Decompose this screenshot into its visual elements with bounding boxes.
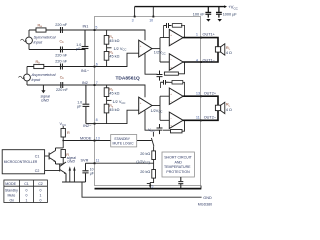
- svg-text:C1: C1: [35, 154, 40, 158]
- pin 10 wire: [152, 7, 154, 17]
- svg-text:OUT2+: OUT2+: [204, 92, 217, 96]
- svg-text:MICROCONTROLLER: MICROCONTROLLER: [4, 160, 38, 164]
- svg-text:MGD380: MGD380: [198, 202, 212, 206]
- svg-text:45 kΩ: 45 kΩ: [109, 54, 119, 58]
- symmetrical input source: [21, 30, 33, 50]
- divider bottom wire: [150, 178, 153, 189]
- resistor Ra: [36, 28, 46, 32]
- svg-text:0: 0: [40, 188, 42, 192]
- internal feedback stub ch2 top: [161, 82, 185, 96]
- svg-text:OUT2−: OUT2−: [204, 115, 217, 119]
- internal caps ch1 below: [157, 71, 163, 81]
- svg-text:GND: GND: [67, 159, 75, 163]
- svg-text:0: 0: [26, 193, 28, 197]
- internal caps ch2 below: [157, 124, 163, 134]
- svg-text:13: 13: [196, 92, 200, 96]
- op-amp ch1 input stage: [139, 40, 152, 57]
- Q1 emitter arrow: [54, 160, 56, 162]
- op-amp OUT1+: [169, 29, 183, 45]
- transistor Q2: [60, 162, 66, 182]
- svg-text:8: 8: [96, 118, 98, 122]
- capacitor below protection: [178, 177, 183, 189]
- signal GND arrow (input): [42, 85, 44, 91]
- svg-text:MUTE LOGIC: MUTE LOGIC: [113, 142, 135, 146]
- svg-text:Mute: Mute: [8, 193, 16, 197]
- op-amp OUT2+: [169, 88, 183, 104]
- wire R to mode junction: [62, 137, 64, 148]
- svg-text:OUT1+: OUT1+: [203, 33, 216, 37]
- ch1 input opamp wires: [95, 30, 161, 67]
- op-amp OUT2-: [169, 112, 183, 128]
- MODE rail: [63, 140, 151, 142]
- svg-text:+VCC: +VCC: [228, 5, 238, 11]
- microcontroller box: [2, 150, 44, 174]
- wire OUT1-: [183, 52, 218, 62]
- short circuit protection block: [162, 152, 194, 177]
- internal feedback wires ch1: [145, 54, 185, 75]
- capacitor 220nF (asym bottom): [61, 82, 63, 88]
- GND power rail: [95, 188, 202, 190]
- svg-text:On: On: [10, 198, 15, 202]
- ch2 input opamp wires: [95, 85, 161, 124]
- svg-text:Standby: Standby: [5, 188, 18, 192]
- capacitor 100nF top: [205, 7, 211, 18]
- signal ground drop wire: [82, 182, 202, 197]
- svg-text:45 kΩ: 45 kΩ: [109, 39, 119, 43]
- svg-text:PROTECTION: PROTECTION: [166, 170, 190, 174]
- BTL split wires ch1: [160, 38, 169, 62]
- svg-text:STANDBY: STANDBY: [114, 137, 131, 141]
- svg-text:GND: GND: [41, 98, 49, 102]
- internal feedback wires ch2: [145, 111, 185, 132]
- wire C2 to Q2 base: [45, 170, 60, 172]
- wire sym minus rail: [29, 49, 85, 51]
- svg-text:220 nF: 220 nF: [55, 54, 68, 58]
- svg-text:20 kΩ: 20 kΩ: [140, 170, 150, 174]
- junction dot mode: [62, 140, 64, 142]
- capacitor 1.0uF ch2: [83, 85, 90, 124]
- GND pin 2 wire: [147, 183, 150, 185]
- internal feedback resistor ch2 top: [172, 81, 183, 85]
- op-amp OUT1-: [169, 54, 183, 70]
- svg-text:AND: AND: [175, 160, 183, 164]
- Q2 emitter arrow: [64, 172, 66, 174]
- svg-text:45 kΩ: 45 kΩ: [109, 92, 119, 96]
- svg-text:IN1: IN1: [83, 25, 89, 29]
- svg-text:MODE: MODE: [5, 182, 16, 186]
- wire OUT1+: [183, 38, 218, 47]
- svg-text:SHORT CIRCUIT: SHORT CIRCUIT: [164, 156, 192, 160]
- svg-text:RL: RL: [226, 46, 231, 51]
- speaker RL ch1: [215, 44, 224, 55]
- svg-text:C2: C2: [38, 182, 43, 186]
- svg-text:20 kΩ: 20 kΩ: [140, 152, 150, 156]
- mode table box: [4, 180, 48, 203]
- signal ground local rail: [62, 181, 86, 183]
- capacitor 1000uF supply: [216, 7, 222, 18]
- wire asym bottom rail: [27, 84, 95, 86]
- svg-text:Ra: Ra: [38, 24, 43, 29]
- pin squares: [94, 16, 202, 187]
- svg-text:R: R: [67, 131, 70, 135]
- svg-text:input: input: [32, 77, 42, 82]
- svg-text:1: 1: [196, 33, 198, 37]
- svg-text:C2: C2: [35, 169, 40, 173]
- internal feedback resistor ch1 top: [172, 24, 182, 28]
- internal feedback stub ch1 top: [164, 25, 185, 37]
- svg-text:Rb: Rb: [36, 60, 41, 65]
- Vcc top rail: [135, 6, 225, 8]
- resistor R pullup: [61, 129, 65, 138]
- capacitor 1.0uF ch1: [82, 30, 89, 67]
- svg-text:IN1−: IN1−: [81, 69, 90, 73]
- capacitor 220nF (sym minus): [61, 47, 63, 53]
- svg-text:TEMPERATURE: TEMPERATURE: [164, 165, 191, 169]
- transistor Q1: [49, 148, 55, 164]
- svg-text:1: 1: [26, 198, 28, 202]
- svg-text:100 nF: 100 nF: [193, 12, 206, 16]
- divider mid wire to SVR: [95, 160, 154, 170]
- svg-text:7: 7: [96, 81, 98, 85]
- svg-text:5: 5: [95, 26, 97, 30]
- ch1 divider resistor Rx upper: [104, 30, 111, 60]
- +Vcc arrow: [224, 5, 227, 8]
- svg-text:1: 1: [40, 193, 42, 197]
- svg-text:Cb: Cb: [60, 40, 65, 45]
- svg-text:input: input: [34, 39, 44, 44]
- resistor R2: [61, 150, 65, 158]
- svg-text:3: 3: [132, 19, 134, 23]
- signal GND arrow right (bottom): [73, 170, 75, 182]
- svg-text:Cb: Cb: [60, 76, 65, 81]
- resistor 20k upper: [152, 151, 156, 160]
- svg-text:11: 11: [96, 158, 100, 162]
- wire OUT2-: [183, 111, 218, 121]
- ground arrow of 100nF: [206, 19, 210, 22]
- capacitor 10uF SVR: [82, 171, 88, 182]
- svg-text:MODE: MODE: [80, 136, 92, 140]
- svg-text:4 Ω: 4 Ω: [226, 51, 232, 55]
- asymmetrical input source: [19, 67, 31, 86]
- svg-text:0: 0: [40, 198, 42, 202]
- wire OUT2+: [183, 96, 218, 105]
- ground arrow of 1000uF: [218, 19, 222, 22]
- standby mute block: [111, 135, 137, 147]
- IC gnd corner stub: [200, 186, 202, 189]
- resistor Rb: [34, 64, 44, 68]
- svg-text:4 Ω: 4 Ω: [226, 108, 232, 112]
- signal GND arrow left (bottom): [69, 170, 71, 182]
- wire C1 to Q1 base: [45, 155, 50, 157]
- svg-text:2: 2: [152, 185, 154, 189]
- speaker RL ch2: [215, 102, 224, 113]
- capacitor 220nF (IN2 top): [61, 64, 63, 70]
- svg-text:IN2: IN2: [82, 81, 88, 85]
- svg-text:11: 11: [196, 115, 200, 119]
- svg-text:45 kΩ: 45 kΩ: [109, 108, 119, 112]
- internal feedback resistor ch1: [164, 72, 178, 75]
- op-amp ch2 input stage: [139, 97, 152, 114]
- svg-text:10: 10: [149, 19, 153, 23]
- svg-text:C1: C1: [24, 182, 29, 186]
- pin 3 wire: [134, 7, 136, 17]
- ch2 divider resistor Rx upper: [104, 85, 111, 113]
- svg-text:4: 4: [196, 58, 198, 62]
- capacitor 220nF (IN1 top): [59, 27, 64, 33]
- internal feedback cap ch2 top: [161, 80, 169, 85]
- resistor 20k lower: [152, 170, 156, 179]
- IC box TDA8561Q: [95, 17, 201, 186]
- BTL split wires ch2: [160, 96, 169, 120]
- wire IN2 top rail: [27, 66, 95, 68]
- SVR wire left: [86, 163, 95, 170]
- svg-text:RL: RL: [226, 103, 231, 108]
- svg-text:0: 0: [26, 188, 28, 192]
- wire IN2- stub: [86, 123, 95, 125]
- svg-text:GND: GND: [203, 196, 212, 200]
- wire Q1 collector link: [56, 148, 64, 162]
- svg-text:SVR: SVR: [81, 159, 89, 163]
- internal feedback cap ch1 top: [164, 23, 172, 28]
- svg-text:13: 13: [96, 136, 100, 140]
- svg-text:1000 µF: 1000 µF: [223, 12, 238, 16]
- svg-text:6: 6: [96, 63, 98, 67]
- svg-text:220 nF: 220 nF: [55, 60, 68, 64]
- svg-text:IN2−: IN2−: [83, 124, 92, 128]
- wire Q1 emitter to Q2 collector: [56, 162, 64, 164]
- svg-text:220 nF: 220 nF: [56, 88, 69, 92]
- svg-text:µF: µF: [90, 171, 94, 175]
- internal feedback resistor ch2: [171, 130, 183, 133]
- svg-text:220 nF: 220 nF: [55, 23, 68, 27]
- svg-text:TDA8561Q: TDA8561Q: [116, 75, 141, 81]
- svg-text:OUT1−: OUT1−: [203, 58, 216, 62]
- wire IN1 rail: [29, 29, 95, 31]
